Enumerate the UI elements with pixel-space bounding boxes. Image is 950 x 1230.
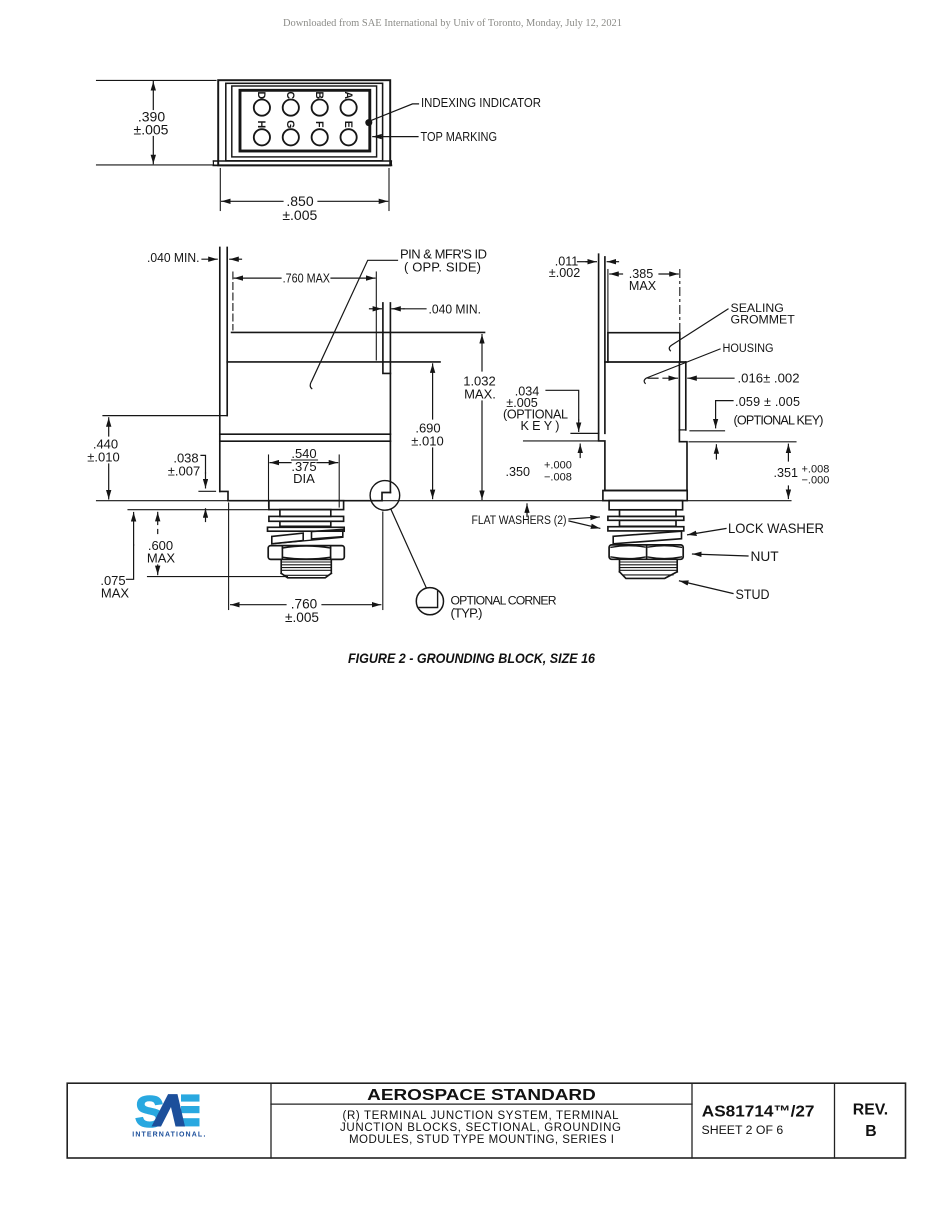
leader from LOCK WASHER to lock washer	[688, 529, 726, 535]
side washer spacer 1	[620, 510, 677, 517]
svg-text:.760 MAX: .760 MAX	[283, 271, 331, 286]
contact cavity G	[283, 129, 299, 145]
leader to INDEXING INDICATOR label	[371, 104, 419, 121]
side right wall bottom	[679, 429, 685, 431]
side flat washer 2	[608, 527, 684, 531]
svg-text:.016± .002: .016± .002	[738, 372, 800, 386]
dim .440 +/-.010	[108, 418, 110, 499]
contact cavity A	[341, 100, 357, 116]
svg-text:INTERNATIONAL․: INTERNATIONAL․	[132, 1131, 206, 1138]
baseline extension line	[97, 500, 792, 502]
title block outer border	[67, 1083, 905, 1158]
title block subject lines	[340, 1110, 621, 1146]
svg-text:±.005: ±.005	[134, 122, 169, 138]
svg-text:.350: .350	[506, 465, 531, 479]
dim .760 +/-.005 bottom extension lines	[228, 503, 230, 610]
svg-text:±.007: ±.007	[168, 463, 200, 478]
front right wall outer line	[389, 303, 391, 493]
side right key tick upper	[690, 430, 725, 432]
svg-text:LOCK WASHER: LOCK WASHER	[728, 521, 824, 536]
front base bottom line	[228, 500, 382, 502]
svg-text:±.010: ±.010	[411, 434, 443, 449]
contact cavity F	[312, 129, 328, 145]
front body top line	[227, 361, 440, 363]
svg-text:MAX: MAX	[101, 585, 130, 600]
svg-text:AEROSPACE STANDARD: AEROSPACE STANDARD	[367, 1087, 596, 1104]
contact cavity H	[254, 129, 270, 145]
magnified corner lines	[419, 591, 437, 607]
side right wall inner line	[678, 362, 680, 430]
front left wall outer line	[219, 247, 221, 491]
side nut	[609, 545, 683, 559]
top view rect C	[232, 86, 377, 157]
front wall bottom tick / .440 extension	[103, 415, 227, 417]
side right key lower extension	[689, 441, 796, 443]
front left base corner step	[220, 491, 228, 500]
side flat washer 1	[608, 516, 684, 520]
boss bottom extension line	[128, 509, 269, 511]
svg-text:MODULES, STUD TYPE MOUNTING, S: MODULES, STUD TYPE MOUNTING, SERIES I	[349, 1134, 614, 1146]
dim .040 MIN right	[370, 308, 427, 310]
SAE logo letter A	[152, 1094, 186, 1126]
svg-text:MAX: MAX	[629, 279, 657, 293]
dim .038 +/-.007	[168, 450, 200, 478]
front washer spacer 1	[280, 510, 331, 517]
side left key lower extension	[524, 440, 599, 442]
top view bottom lip	[213, 160, 391, 162]
side washer spacer 2	[620, 520, 677, 526]
leader from HOUSING to housing wall	[644, 349, 720, 383]
svg-text:(R) TERMINAL JUNCTION SYSTEM,: (R) TERMINAL JUNCTION SYSTEM, TERMINAL	[343, 1110, 620, 1122]
svg-text:JUNCTION BLOCKS, SECTIONAL, GR: JUNCTION BLOCKS, SECTIONAL, GROUNDING	[340, 1122, 621, 1134]
svg-text:MAX: MAX	[147, 551, 176, 566]
dim .385 MAX	[610, 273, 678, 275]
side right wall outer line	[685, 362, 687, 430]
svg-text:−.008: −.008	[544, 472, 572, 484]
front groove line 1	[220, 433, 391, 435]
dim .760 +/-.005 bottom	[231, 604, 381, 606]
leader from SEALING GROMMET to grommet	[669, 309, 728, 351]
svg-text:HOUSING: HOUSING	[723, 341, 774, 355]
svg-text:B: B	[313, 91, 325, 99]
side right optional key step and body edge	[679, 430, 687, 491]
dim .016 +/-.002	[648, 377, 658, 379]
dim .600 MAX	[157, 512, 159, 524]
svg-text:TOP MARKING: TOP MARKING	[421, 129, 498, 144]
cavity letters row 1	[255, 91, 354, 99]
svg-text:MAX.: MAX.	[464, 387, 496, 402]
PIN & MFR'S ID label	[400, 246, 487, 274]
front flat washer 2	[268, 527, 345, 531]
dim .075 MAX	[100, 573, 129, 601]
svg-text:Downloaded from SAE Internatio: Downloaded from SAE International by Uni…	[283, 17, 622, 29]
svg-text:C: C	[284, 91, 296, 99]
leader from detail circle to magnified detail	[391, 509, 427, 588]
svg-text:B: B	[865, 1123, 876, 1140]
front right base corner step (optional corner)	[382, 493, 390, 501]
svg-text:.351: .351	[774, 466, 799, 480]
dim .760 MAX	[234, 277, 375, 279]
svg-text:FLAT WASHERS (2): FLAT WASHERS (2)	[472, 513, 567, 527]
side left key tick	[571, 432, 599, 434]
contact cavity D	[254, 100, 270, 116]
side body bottom line	[605, 490, 687, 492]
svg-text:( OPP. SIDE): ( OPP. SIDE)	[404, 259, 481, 274]
dim .390 +/-.005 extension lines	[97, 79, 217, 81]
svg-text:INDEXING INDICATOR: INDEXING INDICATOR	[421, 95, 541, 110]
front groove line 2	[220, 440, 391, 442]
front top surface line	[232, 331, 485, 333]
front flat washer 1	[269, 516, 344, 521]
svg-text:±.002: ±.002	[549, 266, 580, 280]
svg-text:±.010: ±.010	[87, 450, 119, 465]
side stud thread	[619, 559, 621, 572]
svg-text:FIGURE 2 - GROUNDING BLOCK, SI: FIGURE 2 - GROUNDING BLOCK, SIZE 16	[348, 651, 595, 666]
svg-text:SHEET 2 OF 6: SHEET 2 OF 6	[702, 1123, 784, 1137]
svg-text:E: E	[342, 121, 354, 128]
leader from NUT to nut	[693, 554, 749, 556]
indexing indicator dot	[365, 119, 372, 126]
OPTIONAL CORNER (TYP.) label	[451, 594, 557, 621]
leaders from FLAT WASHERS to washers	[569, 517, 599, 519]
side stud boss	[609, 501, 683, 510]
dim .850 +/-.005	[222, 200, 388, 202]
dim .011 +/-.002	[549, 254, 580, 280]
magnified optional corner detail circle	[416, 588, 443, 615]
side base flange	[603, 491, 687, 501]
dim .760 MAX extension lines	[232, 272, 234, 330]
front stud boss	[269, 501, 344, 510]
svg-text:(OPTIONAL KEY): (OPTIONAL KEY)	[734, 413, 824, 427]
svg-text:±.005: ±.005	[285, 610, 319, 625]
sealing grommet block	[608, 333, 680, 362]
dim .034 +/-.005 (OPTIONAL KEY)	[503, 385, 568, 433]
front lock washer split spring	[272, 533, 303, 544]
svg-text:−.000: −.000	[802, 475, 830, 487]
front stud thread	[280, 559, 282, 573]
dim .351 +.008 -.000	[774, 464, 830, 487]
svg-text:REV.: REV.	[853, 1102, 888, 1119]
side left wall inner line	[604, 257, 606, 433]
svg-text:STUD: STUD	[736, 587, 770, 602]
svg-text:(TYP.): (TYP.)	[451, 605, 483, 620]
dim 1.032 MAX	[481, 335, 483, 500]
dim .059 +/-.005 (OPTIONAL KEY)	[734, 395, 824, 427]
leader from PIN & MFR'S ID to face	[310, 260, 397, 388]
side left optional key step and body edge	[599, 433, 605, 490]
svg-text:H: H	[255, 120, 267, 128]
svg-text:DIA: DIA	[293, 471, 315, 486]
top view inner thick rect D	[240, 90, 370, 151]
top view outer housing rect A	[218, 80, 390, 165]
dim .385 right extension (dash-dot)	[679, 270, 681, 362]
svg-text:+.000: +.000	[544, 460, 572, 472]
svg-text:.040 MIN.: .040 MIN.	[147, 250, 200, 265]
svg-text:.040 MIN.: .040 MIN.	[429, 301, 482, 316]
svg-text:AS81714™/27: AS81714™/27	[702, 1103, 815, 1120]
detail circle on optional corner	[370, 481, 400, 511]
side lock washer	[613, 531, 681, 544]
front stud chamfered tip	[281, 573, 331, 578]
front right wall inner line	[383, 303, 391, 374]
leader arrow to TOP MARKING label	[373, 136, 418, 138]
svg-text:G: G	[284, 120, 296, 128]
front left wall inner line	[226, 247, 228, 415]
front washer spacer 2	[280, 521, 331, 526]
small arrow at baseline left of side view	[526, 504, 528, 517]
top view rect B	[226, 83, 383, 161]
svg-text:GROMMET: GROMMET	[731, 312, 796, 326]
dim .390 +/-.005	[152, 82, 154, 164]
side body top line	[605, 361, 686, 363]
svg-text:F: F	[313, 121, 325, 128]
svg-text:D: D	[255, 91, 267, 99]
front nut	[268, 546, 344, 560]
svg-text:.059 ± .005: .059 ± .005	[735, 395, 800, 409]
cavity letters row 2	[255, 120, 354, 128]
svg-text:NUT: NUT	[751, 549, 780, 564]
svg-text:±.005: ±.005	[282, 207, 317, 223]
dim .850 +/-.005 extension lines	[219, 169, 221, 211]
contact cavity C	[283, 100, 299, 116]
dim .385 left extension	[607, 270, 609, 333]
leader from STUD to stud tip	[680, 581, 734, 594]
dim .350 +.000 -.008	[506, 460, 572, 484]
side stud chamfered tip	[620, 572, 678, 579]
side left wall outer line	[598, 254, 600, 433]
stud bottom extension line	[148, 576, 288, 578]
title block column dividers	[271, 1083, 835, 1158]
SAE logo letter E bars	[181, 1094, 200, 1126]
dim .690 +/-.010	[432, 364, 434, 499]
svg-text:A: A	[342, 91, 354, 99]
dim .540 / .375 DIA	[268, 455, 270, 507]
contact cavity B	[312, 100, 328, 116]
SEALING GROMMET label	[731, 301, 796, 326]
contact cavity E	[341, 129, 357, 145]
